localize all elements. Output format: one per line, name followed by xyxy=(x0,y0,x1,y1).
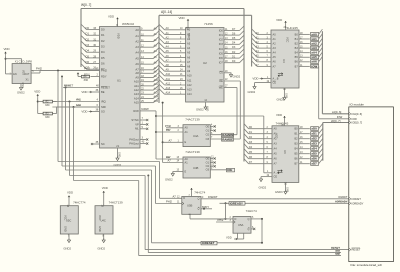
svg-text:D5: D5 xyxy=(86,54,90,58)
U4B input A0 RW xyxy=(166,155,188,161)
U4A output O3 RAMOE xyxy=(206,137,241,142)
svg-text:IOD[0..7]: IOD[0..7] xyxy=(352,121,363,125)
svg-text:GND2: GND2 xyxy=(63,246,71,250)
bus W[0..7] horizontal xyxy=(81,3,244,8)
svg-text:PHI2: PHI2 xyxy=(218,218,224,222)
svg-text:D: D xyxy=(235,217,237,221)
U4B output O1 NC xyxy=(206,160,216,164)
svg-text:NMI: NMI xyxy=(76,103,81,107)
svg-text:U4C: U4C xyxy=(101,219,106,223)
svg-text:xA0: xA0 xyxy=(311,32,317,36)
svg-text:CE: CE xyxy=(274,175,278,179)
svg-text:A12: A12 xyxy=(187,83,192,87)
svg-text:VDD: VDD xyxy=(34,90,40,94)
svg-text:IOE: IOE xyxy=(227,168,232,172)
svg-text:IOWAIT: IOWAIT xyxy=(208,195,218,199)
CPU NMI pin 6 xyxy=(52,103,106,109)
svg-text:O0: O0 xyxy=(206,156,210,160)
U5B R pin wire xyxy=(188,214,227,220)
svg-text:D3: D3 xyxy=(101,44,105,48)
U6 B-side pins xD0-xD7 xyxy=(294,124,322,166)
svg-text:xA[0..6]: xA[0..6] xyxy=(332,110,342,114)
svg-text:D2: D2 xyxy=(249,135,253,139)
svg-text:PHI2: PHI2 xyxy=(101,68,107,72)
net RW wire to U6 DIR xyxy=(156,116,264,173)
svg-text:IO4: IO4 xyxy=(219,47,224,51)
IO module pin IOW xyxy=(349,117,358,121)
svg-text:A11: A11 xyxy=(166,77,171,81)
svg-text:Q: Q xyxy=(248,217,250,221)
RAM U2 CS pin 20 to GND xyxy=(219,71,240,79)
U3 GND pin 10 xyxy=(277,88,287,102)
svg-text:File: iomodule.kicad_sch: File: iomodule.kicad_sch xyxy=(351,263,383,267)
svg-text:A11: A11 xyxy=(154,82,159,86)
CPU BE pin 36 with VDD xyxy=(81,88,104,94)
U5A Q pin 5 xyxy=(248,217,263,243)
U5A PRE pin 4 VDD xyxy=(226,233,244,240)
svg-text:ML: ML xyxy=(135,127,139,131)
svg-text:O2: O2 xyxy=(206,133,210,137)
oscillator X1 CXO_DIP8 xyxy=(10,60,33,88)
svg-text:IOREADY: IOREADY xyxy=(352,201,364,205)
svg-text:O2: O2 xyxy=(206,164,210,168)
wire PHI2 down to U5B clock xyxy=(156,166,182,204)
svg-text:U5C: U5C xyxy=(66,219,71,223)
U4A input E A15 xyxy=(169,138,187,144)
U5C GND pin 7 xyxy=(63,234,71,250)
svg-text:O0: O0 xyxy=(206,124,210,128)
wire to U5B D input xyxy=(160,162,182,199)
svg-text:IO0: IO0 xyxy=(219,28,224,32)
U6 CE pin 19 GND xyxy=(259,175,278,190)
svg-text:VCC: VCC xyxy=(286,37,290,43)
U4B input E GND xyxy=(165,169,187,181)
svg-text:D3: D3 xyxy=(232,45,236,49)
net label NMI at bottom xyxy=(335,252,340,256)
svg-text:VDD: VDD xyxy=(252,77,258,81)
IO module pin IOD[0..7] xyxy=(349,121,363,125)
CPU VP pin 1 NC xyxy=(135,121,148,127)
IO module pin IOA[0..6] xyxy=(349,112,362,116)
power unit U4C 74HCT139 xyxy=(95,201,123,234)
U6 GND pin 10 xyxy=(275,182,288,194)
svg-text:A→B: A→B xyxy=(273,77,279,81)
svg-text:OUT: OUT xyxy=(24,73,30,76)
svg-text:GND: GND xyxy=(98,226,102,232)
svg-text:U4B: U4B xyxy=(193,166,199,170)
U6 DIR pin 1 xyxy=(264,171,280,175)
CPU IRQ pin 4 xyxy=(52,98,105,104)
svg-text:D2: D2 xyxy=(86,37,90,41)
svg-text:GND2: GND2 xyxy=(165,178,173,182)
svg-text:VDD: VDD xyxy=(226,236,232,240)
U5A D pin 2 xyxy=(230,217,237,221)
U4A output O2 RAMWE xyxy=(206,133,237,138)
svg-text:D0: D0 xyxy=(101,28,105,32)
U6 A-side pins D0-D7 with bus entries xyxy=(244,124,277,166)
CPU PHI2 input wire from oscillator xyxy=(19,67,108,73)
U4B output O0 NC xyxy=(206,156,216,160)
CPU RESET pin 40 xyxy=(63,84,110,90)
svg-text:IO5: IO5 xyxy=(219,51,224,55)
RAM U2 GND pin 14 xyxy=(196,100,208,111)
decoder U4A 74ACT139 body xyxy=(183,117,210,146)
CPU RDY pin 2 xyxy=(84,73,107,79)
IO module pin IOREADY xyxy=(335,200,364,206)
svg-text:D5: D5 xyxy=(101,56,105,60)
CPU ML pin 5 NC xyxy=(135,125,148,131)
svg-text:A13: A13 xyxy=(166,86,171,90)
svg-text:BE: BE xyxy=(101,90,105,94)
svg-text:GND2: GND2 xyxy=(196,108,204,112)
svg-text:VDD: VDD xyxy=(276,18,282,22)
svg-text:PHI2: PHI2 xyxy=(36,67,42,71)
svg-text:D7: D7 xyxy=(249,160,253,164)
svg-text:A0: A0 xyxy=(135,28,139,32)
wire NMI down to bottom xyxy=(139,181,341,256)
net label IRQ at bottom xyxy=(335,249,340,253)
svg-text:GND2: GND2 xyxy=(259,186,267,190)
svg-text:U3: U3 xyxy=(282,59,286,63)
svg-text:GND2: GND2 xyxy=(97,246,105,250)
svg-text:RW: RW xyxy=(166,155,171,159)
U5B C pin 11 xyxy=(166,200,184,205)
svg-text:O3: O3 xyxy=(206,168,210,172)
svg-text:RW: RW xyxy=(166,128,171,132)
CPU PHI2out pin 3 NC xyxy=(129,136,148,142)
U4A output O0 NC xyxy=(206,124,216,128)
svg-text:D4: D4 xyxy=(232,41,236,45)
CPU PHI1out pin 43 NC xyxy=(129,140,148,146)
oscillator VDD xyxy=(4,47,22,74)
svg-text:A→B: A→B xyxy=(274,171,280,175)
svg-text:RW: RW xyxy=(144,107,149,111)
svg-text:xA6: xA6 xyxy=(311,60,317,64)
svg-text:D3: D3 xyxy=(249,140,253,144)
U4C VDD pin 16 xyxy=(101,186,108,208)
RAM U2 71256 body xyxy=(186,22,224,102)
IO module pin IOWAIT xyxy=(338,195,361,201)
svg-text:U5B: U5B xyxy=(187,204,193,208)
RAM U2 VDD pin 28 xyxy=(179,16,190,30)
RAM U2 data pins IO0-IO7 with bus entries xyxy=(219,26,244,65)
svg-text:PHI1out: PHI1out xyxy=(129,142,139,146)
svg-text:A7: A7 xyxy=(169,138,173,142)
svg-text:IOW: IOW xyxy=(352,117,358,121)
svg-text:A1: A1 xyxy=(135,34,139,38)
svg-text:GND2: GND2 xyxy=(233,75,241,79)
svg-text:PHI2: PHI2 xyxy=(84,67,91,71)
net A7 vertical xyxy=(162,102,183,163)
U3 VDD pin 20 xyxy=(276,18,287,30)
svg-text:GND: GND xyxy=(64,226,68,232)
IO module sheet box xyxy=(349,102,394,267)
CPU address pins A0-A15 with bus entries xyxy=(134,25,159,104)
svg-text:NC: NC xyxy=(101,142,105,146)
svg-text:xA3: xA3 xyxy=(311,46,317,50)
CPU U1 W65C02 body xyxy=(100,22,141,148)
svg-text:D1: D1 xyxy=(249,130,253,134)
U5A Qbar pin 6 NC xyxy=(248,227,256,231)
wire IOREADY xyxy=(220,201,349,219)
bus A[0..14] horizontal xyxy=(159,10,252,15)
svg-text:D4: D4 xyxy=(249,145,253,149)
net RW vertical xyxy=(155,111,183,159)
svg-text:D5: D5 xyxy=(249,150,253,154)
U5B D pin 12 xyxy=(173,194,186,200)
svg-text:D4: D4 xyxy=(86,49,90,53)
svg-text:IOWAIT: IOWAIT xyxy=(338,195,348,199)
svg-text:NMI: NMI xyxy=(101,105,106,109)
oscillator output wire to PHI2 xyxy=(31,67,99,74)
svg-text:74ACT139: 74ACT139 xyxy=(185,117,200,121)
svg-text:D6: D6 xyxy=(232,31,236,35)
svg-text:74HCT74: 74HCT74 xyxy=(73,201,86,205)
CPU data pins D0-D7 with bus entries xyxy=(81,24,105,71)
svg-text:GND2: GND2 xyxy=(248,90,256,94)
svg-text:xD0: xD0 xyxy=(311,127,317,131)
U5B PRE pin VDD xyxy=(189,188,193,197)
power unit U5C 74HCT74 xyxy=(60,201,86,234)
U5B Q pin 9 IOWAIT xyxy=(198,195,349,201)
RAM U2 OE pin 22 wire to RAMOE xyxy=(219,79,240,139)
svg-text:xA2: xA2 xyxy=(311,41,317,45)
U4B output O2 NC xyxy=(206,164,216,168)
svg-text:IOREADY: IOREADY xyxy=(336,200,348,204)
svg-text:IO3: IO3 xyxy=(219,42,224,46)
svg-text:A[0..14]: A[0..14] xyxy=(161,10,172,14)
svg-text:NMI: NMI xyxy=(335,252,340,256)
net label RESET at bottom xyxy=(331,246,340,250)
svg-text:O1: O1 xyxy=(206,160,210,164)
svg-text:xD2: xD2 xyxy=(311,137,317,141)
svg-text:D7: D7 xyxy=(232,27,236,31)
svg-text:D5: D5 xyxy=(232,36,236,40)
U3 B-side pins xA0-xA6 and IOW xyxy=(295,29,323,68)
U5B Qbar pin 8 RDY xyxy=(198,205,212,211)
nested wires from CPU control nets xyxy=(57,70,160,181)
svg-text:VDD: VDD xyxy=(81,110,87,114)
svg-text:IO1: IO1 xyxy=(219,33,224,37)
svg-text:IOW: IOW xyxy=(311,64,317,68)
svg-text:xD6: xD6 xyxy=(311,157,317,161)
bus W vertical right (to U2/U6 data) xyxy=(243,9,245,162)
bus xA vertical xyxy=(321,31,323,114)
svg-text:RDY: RDY xyxy=(101,74,107,78)
U5C VDD pin 14 xyxy=(66,191,73,208)
svg-text:SO: SO xyxy=(101,109,105,113)
U3 DIR pin 1 VDD xyxy=(252,77,278,81)
wire IORESET vertical from nest xyxy=(151,170,153,243)
svg-text:A11: A11 xyxy=(187,78,192,82)
svg-text:71256: 71256 xyxy=(204,22,213,26)
svg-text:xD[0..7]: xD[0..7] xyxy=(331,119,341,123)
resistor R3 3k3 NMI pullup xyxy=(38,107,100,119)
svg-text:O3: O3 xyxy=(206,137,210,141)
svg-text:A10: A10 xyxy=(187,74,192,78)
svg-text:A13: A13 xyxy=(187,88,192,92)
U3 A-side pins with bus entries xyxy=(252,29,277,68)
U5A C pin 3 PHI2 xyxy=(216,218,235,223)
bus A vertical (CPU/U2) xyxy=(158,15,160,103)
svg-text:SYNC: SYNC xyxy=(131,118,138,122)
svg-text:U6: U6 xyxy=(283,150,287,154)
svg-text:D1: D1 xyxy=(101,33,105,37)
svg-text:xD3: xD3 xyxy=(311,142,317,146)
svg-text:74HC74: 74HC74 xyxy=(246,209,257,213)
U4C GND pin 8 xyxy=(97,234,105,250)
svg-text:xD7: xD7 xyxy=(311,162,317,166)
svg-text:330: 330 xyxy=(45,103,50,107)
svg-text:RAMOE: RAMOE xyxy=(222,137,233,141)
svg-text:IO module: IO module xyxy=(350,102,365,106)
U6 VDD pin 20 xyxy=(276,113,286,126)
buffer U3 74HC245 body xyxy=(271,26,299,88)
svg-text:D1: D1 xyxy=(86,32,90,36)
svg-text:D6: D6 xyxy=(249,155,253,159)
svg-text:A15: A15 xyxy=(134,101,139,105)
svg-text:D6: D6 xyxy=(86,60,90,64)
svg-text:D3: D3 xyxy=(86,43,90,47)
svg-text:xD1: xD1 xyxy=(311,132,317,136)
svg-text:GND2: GND2 xyxy=(17,91,25,95)
svg-text:A4: A4 xyxy=(135,51,139,55)
svg-text:VDD: VDD xyxy=(4,47,10,51)
wire IRQ down to bottom xyxy=(148,176,341,253)
svg-text:U2: U2 xyxy=(203,61,207,65)
U3 CE pin 19 GND xyxy=(248,81,277,95)
svg-text:74HC74: 74HC74 xyxy=(194,190,205,194)
svg-text:U4A: U4A xyxy=(193,134,199,138)
svg-text:U5A: U5A xyxy=(238,223,244,227)
svg-text:74HC245: 74HC245 xyxy=(285,26,298,30)
bus A vertical right (to U3) xyxy=(251,15,253,66)
svg-text:IO2: IO2 xyxy=(219,38,224,42)
svg-text:VDD: VDD xyxy=(179,16,185,20)
svg-text:D0: D0 xyxy=(86,26,90,30)
RAM U2 address pins A0-A14 with bus entries xyxy=(159,24,192,96)
CPU GND pin 21 xyxy=(114,144,122,167)
svg-text:W65C02: W65C02 xyxy=(122,22,134,26)
svg-text:W[0..7]: W[0..7] xyxy=(81,3,91,7)
svg-text:D2: D2 xyxy=(101,39,105,43)
svg-text:R/W: R/W xyxy=(133,109,139,113)
CPU SO pin 38 with VDD xyxy=(81,108,104,114)
resistor R2 3k3 IRQ pullup xyxy=(38,100,57,107)
bus xD vertical and horizontal to IO module xyxy=(323,119,349,161)
U4B output O3 IOE xyxy=(206,168,235,173)
svg-text:74HCT139: 74HCT139 xyxy=(109,201,123,205)
svg-text:A7: A7 xyxy=(173,194,177,198)
svg-text:A12: A12 xyxy=(166,81,171,85)
svg-text:IO6: IO6 xyxy=(219,56,224,60)
svg-text:PHI2: PHI2 xyxy=(165,124,171,128)
IO module pin RESET xyxy=(349,248,361,252)
svg-text:E: E xyxy=(185,140,187,144)
svg-text:O1: O1 xyxy=(206,129,210,133)
svg-text:VDD: VDD xyxy=(81,90,87,94)
U4B input A1 A15 xyxy=(168,159,189,165)
svg-text:IOA[0..6]: IOA[0..6] xyxy=(352,112,363,116)
svg-text:A10: A10 xyxy=(166,72,171,76)
svg-text:VDD: VDD xyxy=(21,70,23,75)
U4A output O1 NC xyxy=(206,129,216,133)
svg-text:PHI2: PHI2 xyxy=(166,200,172,204)
svg-text:VDD: VDD xyxy=(102,186,108,190)
U4A input A0 PHI2 xyxy=(165,124,188,130)
svg-text:330: 330 xyxy=(45,115,50,119)
oscillator GND xyxy=(17,84,25,95)
svg-text:D2: D2 xyxy=(232,50,236,54)
svg-text:74ACT139: 74ACT139 xyxy=(185,150,200,154)
svg-text:VP: VP xyxy=(135,122,139,126)
resistor R4 330 (RDY pullup) xyxy=(78,75,90,82)
svg-text:A15: A15 xyxy=(154,99,159,103)
svg-text:E: E xyxy=(185,169,187,173)
svg-text:EN: EN xyxy=(13,73,17,76)
svg-text:A2: A2 xyxy=(135,39,139,43)
svg-text:A14: A14 xyxy=(166,91,171,95)
svg-text:IO7: IO7 xyxy=(219,61,224,65)
svg-text:VDD: VDD xyxy=(108,15,114,19)
CPU RW pin 34 xyxy=(133,107,156,113)
CPU SYNC pin 7 NC xyxy=(131,116,148,122)
svg-text:D6: D6 xyxy=(101,61,105,65)
flip-flop U5A 74HC74 body xyxy=(233,209,257,233)
svg-text:xD5: xD5 xyxy=(311,152,317,156)
svg-text:GND3: GND3 xyxy=(275,190,283,194)
svg-text:RESET: RESET xyxy=(101,85,110,89)
CPU U1 VDD pin 8 xyxy=(108,15,119,27)
flip-flop U5B 74HC74 body xyxy=(182,190,206,214)
svg-text:D0: D0 xyxy=(249,125,253,129)
svg-text:IRQ: IRQ xyxy=(76,98,82,102)
VDD for pullups xyxy=(34,90,40,114)
svg-text:PHI2out: PHI2out xyxy=(129,137,139,141)
svg-text:A14: A14 xyxy=(187,92,192,96)
svg-text:D: D xyxy=(183,196,185,200)
CPU NC pin 35 xyxy=(91,140,105,146)
net IOW vertical wire xyxy=(319,66,349,119)
svg-text:VDD: VDD xyxy=(67,191,73,195)
svg-text:Q: Q xyxy=(198,197,200,201)
wire IORESET xyxy=(152,241,264,245)
wire RESET down to bottom xyxy=(145,176,349,250)
svg-text:330: 330 xyxy=(84,78,89,82)
svg-text:VDD: VDD xyxy=(117,33,121,39)
buffer U6 74HC245 body xyxy=(272,122,299,183)
svg-text:A5: A5 xyxy=(135,56,139,60)
svg-text:IOREADY: IOREADY xyxy=(230,201,243,205)
svg-text:xA4: xA4 xyxy=(311,51,317,55)
svg-text:xD4: xD4 xyxy=(311,147,317,151)
svg-text:A3: A3 xyxy=(135,45,139,49)
RAM U2 WE pin 27 wire to RAMWE xyxy=(219,85,237,134)
svg-text:D4: D4 xyxy=(101,50,105,54)
svg-text:IORESET: IORESET xyxy=(202,241,215,245)
svg-text:IOWAIT: IOWAIT xyxy=(352,197,362,201)
bus xA horizontal to IO module xyxy=(322,110,348,114)
U4A input A1 RW xyxy=(166,128,188,134)
bus W vertical left (CPU D pins) xyxy=(80,9,82,68)
RDY pullup VDD stub xyxy=(77,73,80,77)
svg-text:xA5: xA5 xyxy=(311,55,317,59)
svg-text:RESET: RESET xyxy=(352,248,361,252)
svg-text:A6: A6 xyxy=(135,62,139,66)
svg-text:X1 CXO_DIP8: X1 CXO_DIP8 xyxy=(15,60,33,64)
svg-text:D0: D0 xyxy=(232,59,236,63)
svg-text:xA1: xA1 xyxy=(311,37,317,41)
